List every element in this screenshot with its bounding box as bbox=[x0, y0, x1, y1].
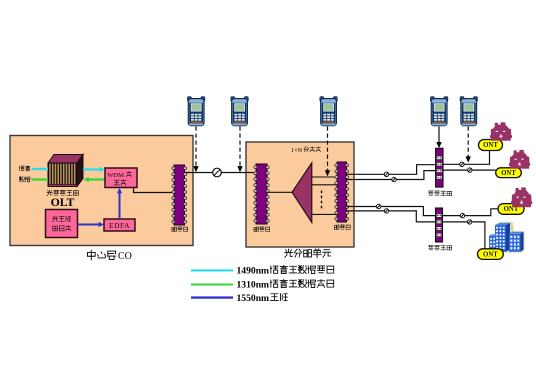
svg-text:1310nm: 1310nm bbox=[237, 279, 270, 290]
svg-text:ONT: ONT bbox=[483, 251, 498, 258]
svg-text:1550nm: 1550nm bbox=[237, 293, 270, 304]
svg-text:EDFA: EDFA bbox=[109, 221, 130, 230]
svg-text:CO: CO bbox=[118, 251, 132, 262]
svg-text:ONT: ONT bbox=[504, 206, 519, 213]
svg-text:WDM: WDM bbox=[107, 172, 124, 179]
svg-text:1×N: 1×N bbox=[291, 147, 303, 154]
svg-text:OLT: OLT bbox=[51, 195, 75, 209]
svg-text:1490nm: 1490nm bbox=[237, 265, 270, 276]
svg-text:ONT: ONT bbox=[483, 142, 498, 149]
svg-text:ONT: ONT bbox=[501, 170, 516, 177]
